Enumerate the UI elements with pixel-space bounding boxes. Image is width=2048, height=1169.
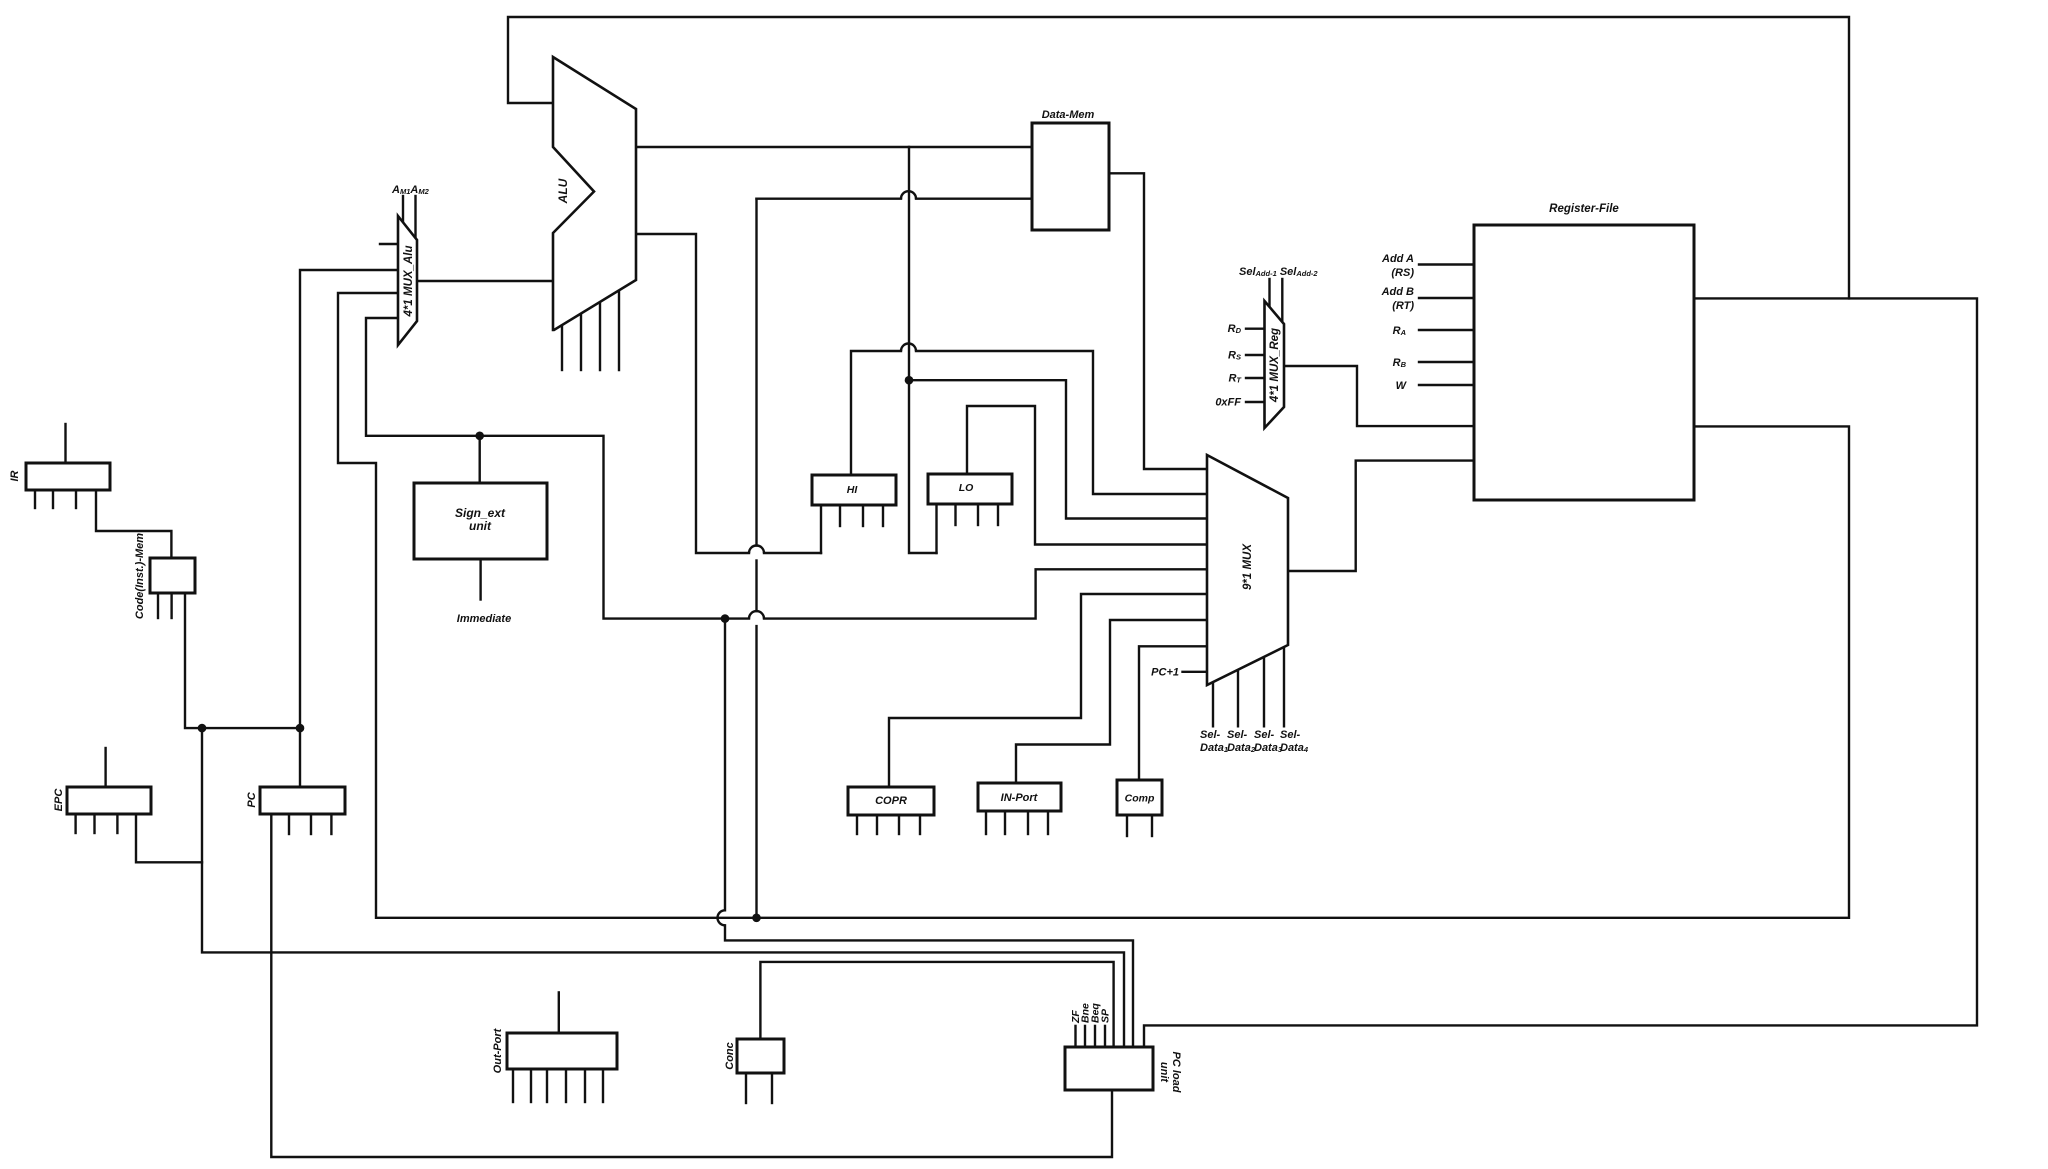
svg-text:Add B: Add B xyxy=(1381,286,1414,298)
svg-text:HI: HI xyxy=(847,484,859,496)
svg-text:Data1: Data1 xyxy=(1200,742,1228,754)
svg-text:unit: unit xyxy=(1158,1062,1170,1083)
svg-text:PC+1: PC+1 xyxy=(1151,667,1179,679)
svg-text:PC: PC xyxy=(246,791,258,807)
svg-text:(RT): (RT) xyxy=(1392,300,1414,312)
svg-text:unit: unit xyxy=(469,519,492,533)
svg-text:ALU: ALU xyxy=(556,178,570,204)
svg-text:Sel-: Sel- xyxy=(1280,729,1301,741)
svg-text:Data-Mem: Data-Mem xyxy=(1042,109,1095,121)
svg-text:Comp: Comp xyxy=(1125,793,1155,805)
svg-text:IR: IR xyxy=(9,470,21,481)
svg-text:PC load: PC load xyxy=(1170,1052,1182,1093)
svg-text:9*1 MUX: 9*1 MUX xyxy=(1242,543,1254,590)
svg-text:W: W xyxy=(1396,380,1408,392)
svg-text:IN-Port: IN-Port xyxy=(1001,792,1039,804)
svg-text:Sel-: Sel- xyxy=(1254,729,1275,741)
svg-text:Sel-: Sel- xyxy=(1227,729,1248,741)
svg-text:(RS): (RS) xyxy=(1391,267,1414,279)
svg-text:SP: SP xyxy=(1100,1008,1112,1023)
svg-text:Sel-: Sel- xyxy=(1200,729,1221,741)
svg-text:COPR: COPR xyxy=(875,795,907,807)
svg-text:4*1 MUX_Reg: 4*1 MUX_Reg xyxy=(1269,328,1281,403)
svg-text:LO: LO xyxy=(959,482,974,494)
svg-text:Register-File: Register-File xyxy=(1549,203,1619,215)
svg-text:0xFF: 0xFF xyxy=(1215,397,1241,409)
svg-text:Conc: Conc xyxy=(724,1042,736,1070)
svg-text:Add A: Add A xyxy=(1381,253,1414,265)
svg-text:EPC: EPC xyxy=(53,788,65,812)
svg-text:Sign_ext: Sign_ext xyxy=(455,506,506,520)
svg-text:Out-Port: Out-Port xyxy=(492,1027,504,1073)
svg-text:Code(Inst.)-Mem: Code(Inst.)-Mem xyxy=(134,533,146,619)
svg-text:4*1 MUX_Alu: 4*1 MUX_Alu xyxy=(403,246,415,318)
svg-text:Immediate: Immediate xyxy=(457,613,511,625)
